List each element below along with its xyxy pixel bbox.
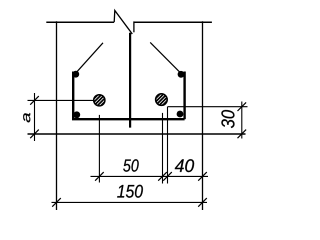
section outline: bottom edge with extensions — [28, 133, 246, 135]
tick 50 left — [95, 172, 104, 181]
section outline: right edge + extension to 150 dim — [202, 21, 204, 210]
tick 50 right — [158, 172, 167, 181]
dimension line 30 (vertical) — [241, 102, 243, 139]
leader line from top-left bar — [76, 43, 103, 73]
longitudinal bar dot bottom-right — [177, 111, 184, 118]
stirrup right leg (thick) — [183, 72, 185, 120]
main bar left (hatched circle) — [87, 87, 112, 112]
stirrup bottom run (thick) — [72, 118, 185, 120]
label 50 — [123, 159, 139, 171]
tick 30 top — [238, 102, 247, 111]
section outline: left edge + extension to 150 dim — [56, 21, 58, 210]
main bar right (hatched circle) — [152, 84, 170, 116]
tick 150 right — [198, 198, 207, 207]
label 150 — [117, 185, 143, 198]
extension drop from right bar corner — [167, 107, 169, 184]
break symbol zigzag — [114, 11, 132, 35]
dimension line a (vertical) — [34, 93, 36, 141]
tick a bottom — [30, 130, 39, 139]
label 40 — [175, 159, 194, 172]
longitudinal bar dot top-left — [72, 71, 79, 78]
dimension line 50/40 (horizontal) — [91, 175, 209, 177]
label 30 (rotated) — [221, 110, 234, 128]
tick 40 left — [163, 172, 172, 181]
extension line below right bar — [162, 113, 164, 184]
section cut line (middle, thick) — [129, 33, 131, 128]
extension line from right bar to dim 30 (horizontal) — [168, 106, 248, 108]
tick a top — [30, 96, 39, 105]
section outline: top edge right segment — [134, 21, 212, 23]
tick 30 bottom — [238, 130, 247, 139]
break symbol right stub — [133, 21, 135, 32]
label a (rotated) — [23, 113, 30, 122]
longitudinal bar dot top-right — [178, 71, 185, 78]
leader line from top-right bar — [150, 42, 181, 73]
stirrup left leg (thick) — [72, 72, 74, 120]
longitudinal bar dot bottom-left — [73, 111, 80, 118]
section outline: top edge left segment — [46, 21, 114, 23]
extension line from left bar to dim a (horizontal) — [28, 99, 94, 101]
extension line below left bar — [98, 115, 100, 183]
dimension line 150 (horizontal) — [52, 201, 208, 203]
tick 40 right — [198, 172, 207, 181]
tick 150 left — [52, 198, 61, 207]
